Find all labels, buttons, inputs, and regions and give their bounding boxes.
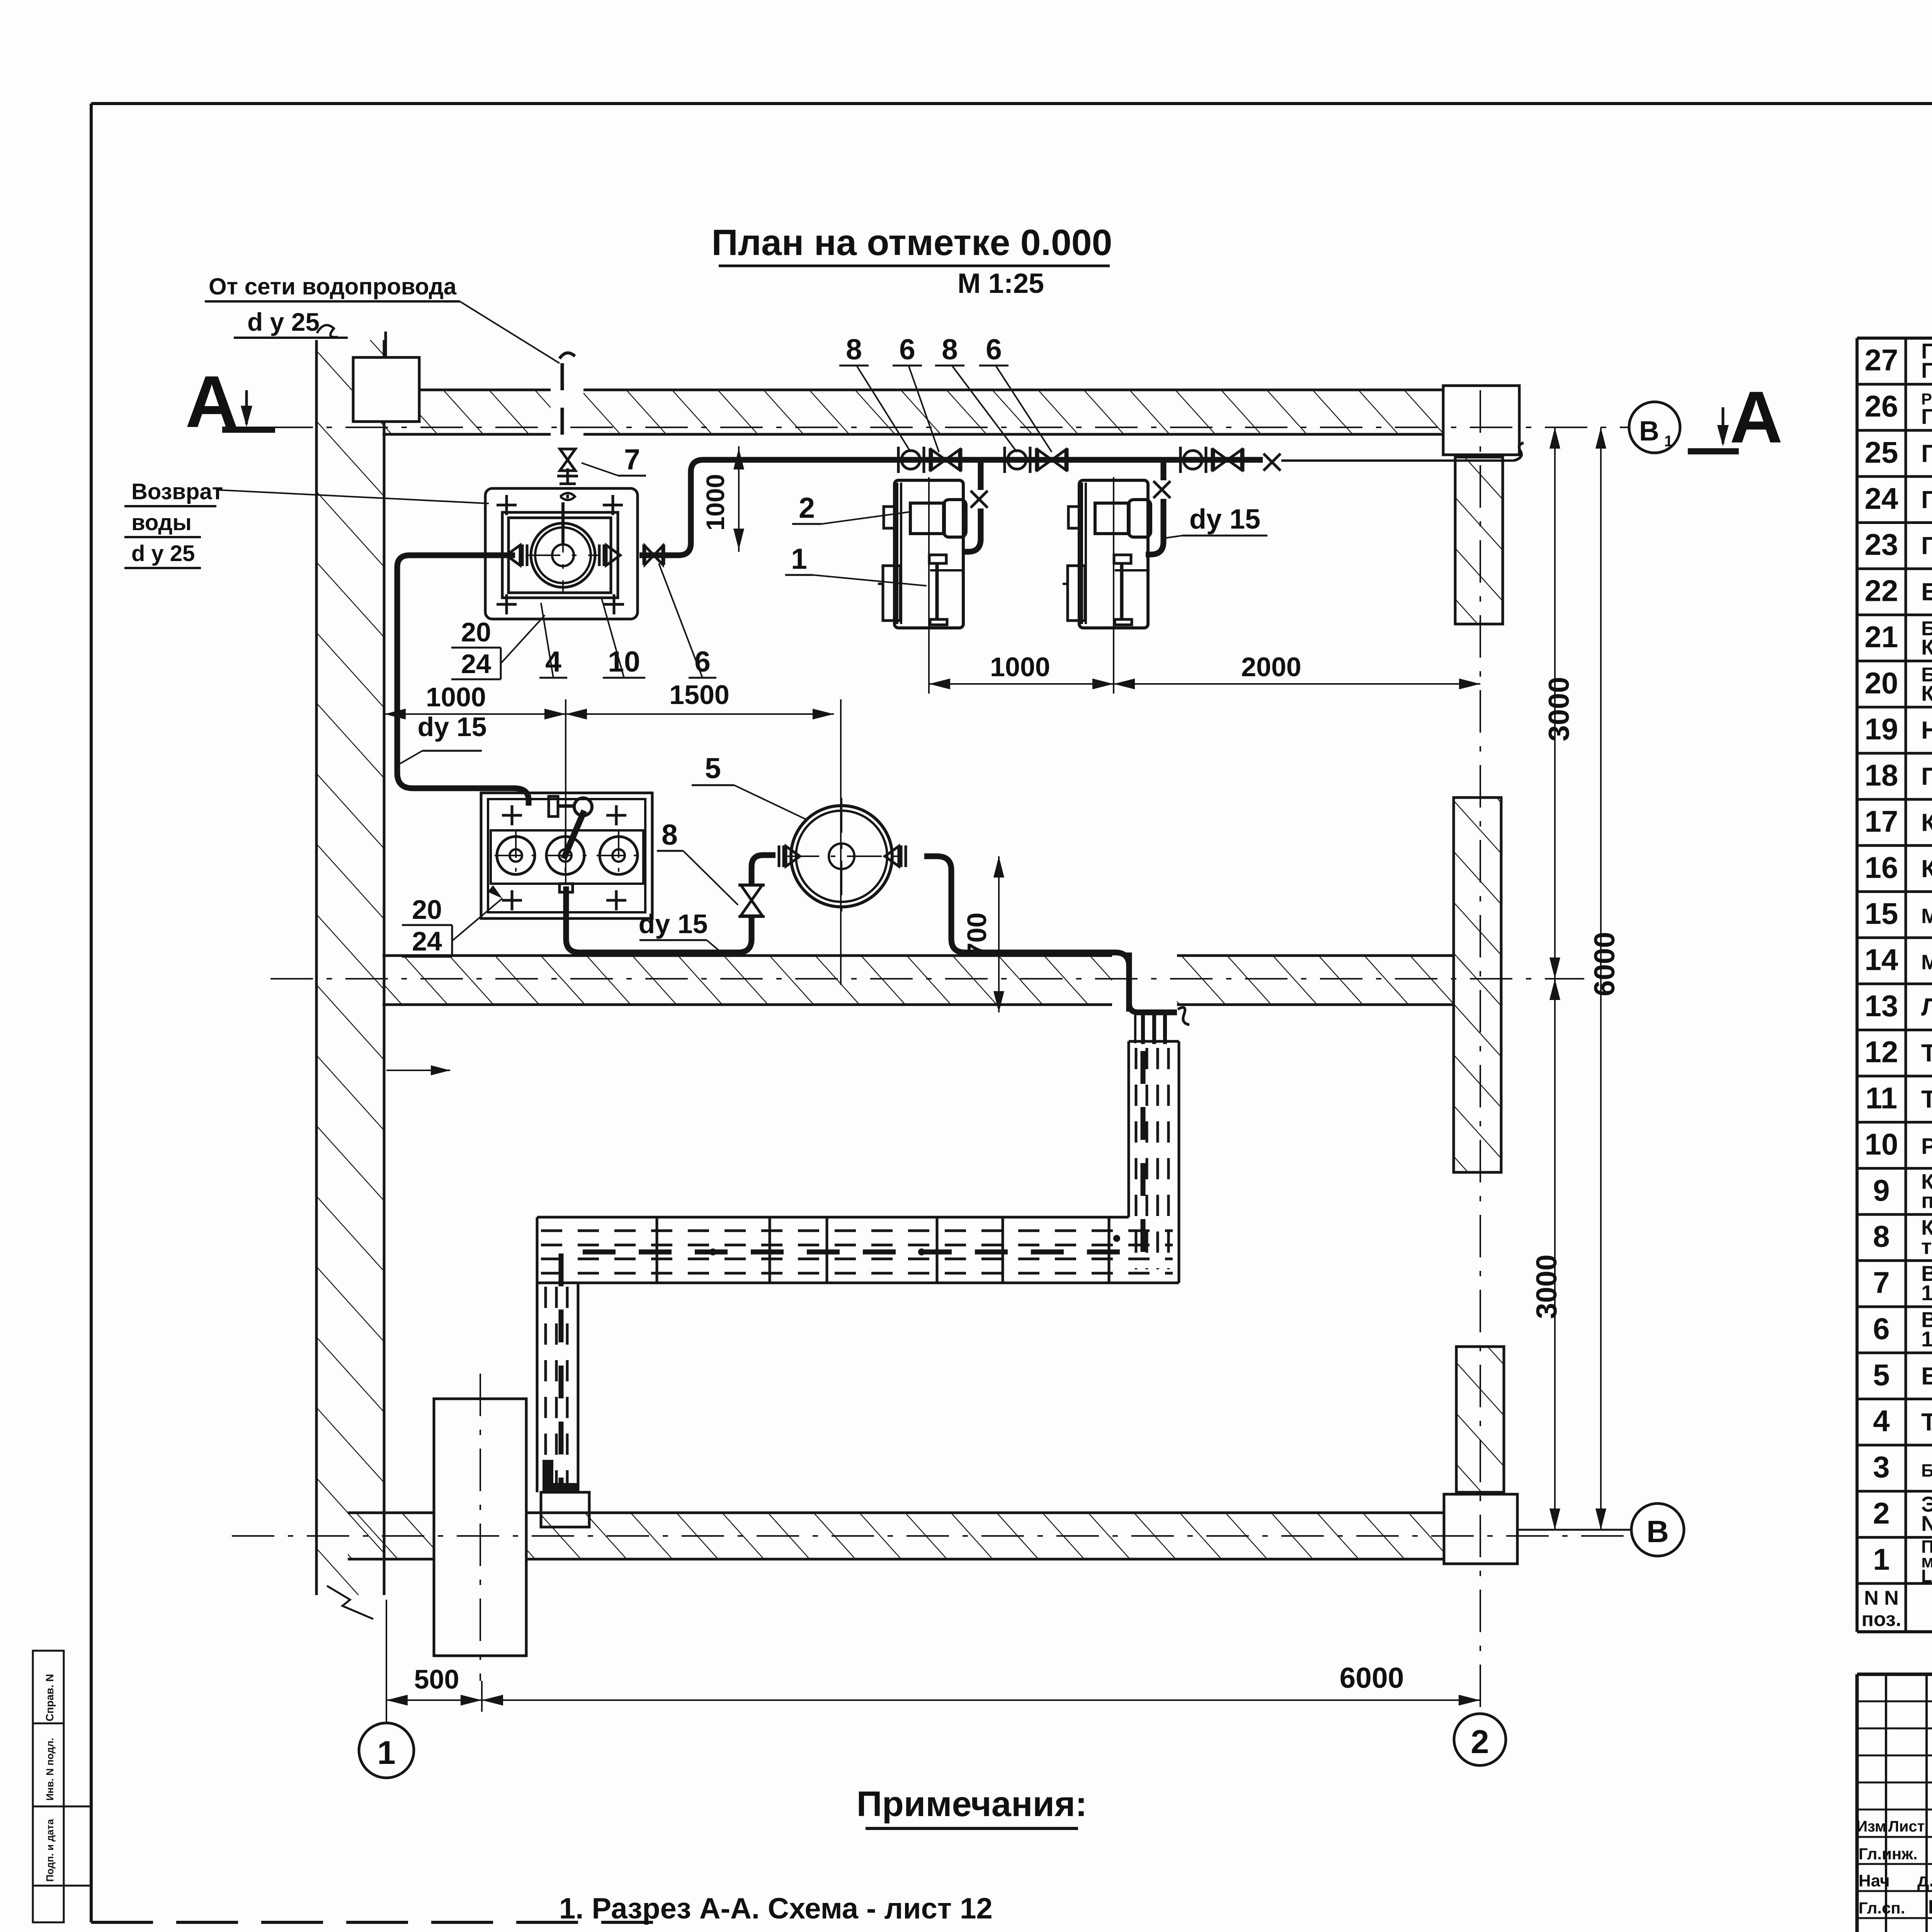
svg-text:10: 10 [608, 645, 640, 678]
svg-text:10: 10 [1865, 1127, 1898, 1161]
svg-text:От сети водопровода: От сети водопровода [209, 274, 457, 299]
svg-text:поз.: поз. [1862, 1608, 1901, 1631]
svg-text:3: 3 [1873, 1450, 1889, 1484]
svg-text:Лист: Лист [1888, 1818, 1925, 1835]
svg-text:Гайка М12 ГОСТ 5915-70*: Гайка М12 ГОСТ 5915-70* [1921, 486, 1932, 514]
svg-text:27: 27 [1865, 343, 1898, 377]
svg-text:Лист 3 ГОСТ 19903-74*: Лист 3 ГОСТ 19903-74* [1921, 993, 1932, 1021]
svg-text:В: В [1646, 1514, 1669, 1549]
svg-text:2000: 2000 [1241, 652, 1301, 682]
svg-text:N N: N N [1864, 1587, 1899, 1609]
svg-text:Теплообменник ТНВ-6,5: Теплообменник ТНВ-6,5 [1921, 1408, 1932, 1436]
svg-text:Ниппель 1/2″- 20: Ниппель 1/2″- 20 [1921, 716, 1932, 744]
svg-text:Муфта короткая 25ст ГОСТ 8966-: Муфта короткая 25ст ГОСТ 8966-75 [1921, 905, 1932, 928]
svg-text:Рама под теплообменник ТНВ-6,5: Рама под теплообменник ТНВ-6,5 [1921, 1134, 1932, 1159]
svg-text:9: 9 [1873, 1173, 1889, 1207]
svg-text:Круг 12 ГОСТ 2590-71*: Круг 12 ГОСТ 2590-71* [1921, 681, 1932, 705]
svg-text:М 1:25: М 1:25 [957, 268, 1044, 299]
svg-text:1000: 1000 [701, 474, 730, 531]
svg-text:Круг 16 ГОСТ 2590-71*: Круг 16 ГОСТ 2590-71* [1921, 635, 1932, 659]
svg-text:N=4,5кВт; n=1400об/мин.: N=4,5кВт; n=1400об/мин. [1921, 1511, 1932, 1536]
svg-text:15: 15 [1865, 896, 1898, 930]
svg-text:воды: воды [131, 510, 192, 535]
svg-text:7: 7 [624, 443, 640, 476]
svg-text:Контргайка 25 ГОСТ 8968-75: Контргайка 25 ГОСТ 8968-75 [1921, 808, 1932, 836]
svg-text:1: 1 [377, 1735, 395, 1771]
svg-text:15кч 18п Ду15 Ру16: 15кч 18п Ду15 Ру16 [1921, 1327, 1932, 1351]
svg-text:6: 6 [1873, 1311, 1889, 1345]
svg-text:24: 24 [461, 649, 491, 679]
svg-text:6: 6 [986, 333, 1002, 366]
svg-text:А: А [1730, 376, 1782, 458]
svg-text:20: 20 [412, 895, 442, 925]
svg-text:dy 15: dy 15 [418, 712, 487, 742]
svg-text:ГОСТ 18698-73*: ГОСТ 18698-73* [1921, 404, 1932, 429]
svg-text:11: 11 [1866, 1081, 1897, 1115]
svg-text:24: 24 [412, 926, 442, 956]
svg-text:Труба 25×3,2ГОСТ 3262-75*: Труба 25×3,2ГОСТ 3262-75* [1921, 1039, 1932, 1067]
svg-text:Гайка М16 ГОСТ 5915-70*: Гайка М16 ГОСТ 5915-70* [1921, 439, 1932, 467]
svg-text:L=30 км/час: L=30 км/час [1921, 1566, 1932, 1586]
svg-text:8: 8 [846, 333, 862, 366]
svg-text:6000: 6000 [1340, 1662, 1404, 1694]
svg-text:товый 16Б 1бр Ду15 Ру16: товый 16Б 1бр Ду15 Ру16 [1921, 1235, 1932, 1259]
svg-text:d у 25: d у 25 [247, 308, 320, 336]
svg-text:4: 4 [1873, 1404, 1889, 1438]
svg-text:16: 16 [1865, 850, 1898, 884]
svg-text:25: 25 [1865, 435, 1898, 469]
svg-text:15кч 18п Ду25 Ру16: 15кч 18п Ду25 Ру16 [1921, 1281, 1932, 1305]
svg-text:2: 2 [1873, 1496, 1889, 1530]
svg-text:13: 13 [1865, 989, 1898, 1023]
svg-text:1500: 1500 [669, 680, 730, 710]
svg-text:Блок очистки и осушки Воздуха: Блок очистки и осушки Воздуха БОВ-0,5п [1921, 1461, 1932, 1481]
svg-text:8: 8 [662, 818, 678, 851]
svg-text:3000: 3000 [1530, 1255, 1563, 1319]
svg-text:1. Разрез А-А. Схема - лис: 1. Разрез А-А. Схема - лист 12 [559, 1892, 993, 1925]
svg-text:Болт М 8×30 ГОСТ 7798-70*: Болт М 8×30 ГОСТ 7798-70* [1921, 578, 1932, 606]
svg-text:Гл.сп.: Гл.сп. [1859, 1899, 1905, 1917]
svg-text:6000: 6000 [1588, 932, 1621, 997]
svg-text:Бормонтов: Бормонтов [1928, 1896, 1932, 1918]
svg-text:1: 1 [1664, 433, 1673, 450]
svg-text:Паронит 2 ГОСТ 481-71: Паронит 2 ГОСТ 481-71 [1921, 358, 1932, 383]
svg-text:2: 2 [1471, 1724, 1489, 1760]
svg-text:20: 20 [461, 617, 491, 647]
svg-text:Подп. и дата: Подп. и дата [44, 1819, 56, 1882]
svg-text:1: 1 [1873, 1542, 1889, 1576]
svg-text:Контргайка 15 ГОСТ 8968-75: Контргайка 15 ГОСТ 8968-75 [1921, 855, 1932, 883]
svg-text:В: В [1639, 416, 1659, 447]
svg-text:12: 12 [1865, 1035, 1898, 1069]
svg-text:1000: 1000 [990, 652, 1050, 682]
svg-text:Нач: Нач [1859, 1871, 1890, 1890]
svg-text:План на отметке 0.000: План на отметке 0.000 [712, 222, 1112, 263]
svg-text:Справ. N: Справ. N [44, 1674, 56, 1721]
svg-text:d у 25: d у 25 [131, 541, 195, 566]
svg-text:1000: 1000 [426, 682, 486, 712]
svg-text:8: 8 [1873, 1219, 1889, 1253]
svg-text:24: 24 [1865, 481, 1898, 515]
svg-text:26: 26 [1865, 389, 1898, 423]
svg-text:4: 4 [545, 645, 561, 678]
svg-text:Муфта короткая 15ст ГОСТ 8966-: Муфта короткая 15ст ГОСТ 8966-75 [1921, 951, 1932, 974]
svg-text:Гайка М8 ГОСТ 5915-70*: Гайка М8 ГОСТ 5915-70* [1921, 532, 1932, 560]
svg-text:Примечания:: Примечания: [857, 1784, 1087, 1824]
svg-text:dy 15: dy 15 [1189, 504, 1260, 535]
svg-text:1: 1 [791, 543, 807, 575]
svg-text:20: 20 [1865, 666, 1898, 700]
svg-text:14: 14 [1865, 942, 1898, 976]
svg-text:6: 6 [899, 333, 915, 366]
svg-text:Воздухосборник В-0,5: Воздухосборник В-0,5 [1921, 1362, 1932, 1390]
svg-text:3000: 3000 [1543, 677, 1575, 742]
svg-text:dy 15: dy 15 [639, 909, 708, 939]
svg-text:Полухомут ПХ-20: Полухомут ПХ-20 [1921, 762, 1932, 790]
svg-text:Труба 15×2,8ГОСТ 3262-75*: Труба 15×2,8ГОСТ 3262-75* [1921, 1085, 1932, 1113]
svg-text:19: 19 [1865, 712, 1898, 746]
svg-text:7: 7 [1873, 1265, 1889, 1299]
svg-text:5: 5 [705, 752, 721, 784]
svg-text:Инв. N подл.: Инв. N подл. [44, 1738, 56, 1801]
svg-text:23: 23 [1865, 527, 1898, 561]
svg-text:Гл.инж.: Гл.инж. [1859, 1845, 1918, 1863]
svg-text:д.Кувшинский: д.Кувшинский [1917, 1870, 1932, 1891]
svg-text:17: 17 [1865, 804, 1898, 838]
svg-text:22: 22 [1865, 574, 1898, 608]
svg-text:2: 2 [799, 492, 815, 524]
svg-text:Возврат: Возврат [131, 479, 223, 504]
svg-text:поплавком типа КГ Ду15 Ру16: поплавком типа КГ Ду15 Ру16 [1921, 1188, 1932, 1213]
svg-text:21: 21 [1865, 620, 1898, 654]
svg-text:5: 5 [1873, 1358, 1889, 1392]
svg-text:8: 8 [942, 333, 958, 366]
svg-text:Изм: Изм [1856, 1818, 1886, 1835]
svg-text:18: 18 [1865, 758, 1898, 792]
svg-text:500: 500 [414, 1664, 459, 1694]
